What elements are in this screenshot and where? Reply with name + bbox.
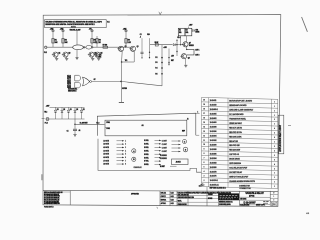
gate U2B — [75, 82, 81, 88]
svg-text:19-26410: 19-26410 — [210, 103, 217, 106]
svg-text:CAP FXD .01: CAP FXD .01 — [229, 153, 239, 156]
board inner box — [105, 120, 187, 136]
svg-text:12: 12 — [203, 135, 205, 137]
transistor Q7 — [182, 36, 194, 47]
svg-text:19-26396: 19-26396 — [210, 131, 217, 133]
transistor Q6 — [129, 46, 138, 52]
approval cells — [161, 191, 231, 206]
board outline — [97, 113, 196, 136]
resistor R7 — [103, 45, 108, 49]
svg-text:CR2: CR2 — [195, 29, 198, 31]
terminal E3 — [89, 28, 93, 47]
svg-text:REL: REL — [179, 32, 182, 34]
svg-text:-15V: -15V — [171, 55, 174, 57]
svg-text:C2 OUT: C2 OUT — [162, 144, 167, 146]
svg-text:REF: REF — [182, 131, 185, 133]
svg-text:1: 1 — [274, 186, 275, 188]
svg-text:RESISTORS ARE 1/4W 5%. CAPACIT: RESISTORS ARE 1/4W 5%. CAPACITORS IN MFD… — [45, 23, 94, 26]
svg-text:B+ 28V RET: B+ 28V RET — [80, 122, 88, 124]
svg-text:R1: R1 — [55, 40, 57, 42]
arrow A1 — [119, 101, 124, 103]
terminal E6 — [44, 46, 47, 54]
svg-text:19-26386: 19-26386 — [210, 153, 217, 155]
wire emitters — [121, 51, 134, 63]
connector ref circle B — [132, 157, 136, 161]
svg-text:19-26390: 19-26390 — [210, 145, 217, 147]
diode CR1 — [96, 54, 102, 59]
ground Q2e — [65, 58, 68, 60]
ladder rails — [50, 107, 85, 119]
connector ref circle D — [183, 147, 188, 152]
relay K2 — [185, 28, 192, 36]
svg-text:P502: P502 — [106, 128, 110, 130]
resistor R5 — [91, 39, 98, 44]
node +28V ladder — [46, 105, 50, 107]
table footer row — [239, 188, 251, 190]
svg-text:A1: A1 — [142, 124, 144, 127]
drawing title — [240, 192, 268, 207]
supply stub W5 — [168, 49, 174, 66]
svg-text:.01: .01 — [78, 130, 80, 132]
svg-text:Q7: Q7 — [189, 43, 191, 45]
wire bus A — [47, 46, 130, 48]
wire supply feed — [150, 44, 173, 46]
svg-text:6-12: 6-12 — [171, 203, 174, 205]
svg-text:5: 5 — [274, 159, 275, 161]
svg-text:1: 1 — [274, 106, 275, 108]
svg-text:COIL RELAY 28V DPDT: COIL RELAY 28V DPDT — [229, 167, 248, 170]
svg-text:SHEET 1 OF 1: SHEET 1 OF 1 — [256, 205, 265, 207]
svg-text:3: 3 — [274, 155, 275, 157]
svg-text:14: 14 — [203, 125, 205, 128]
board label 4 — [187, 118, 189, 120]
svg-text:2N2222: 2N2222 — [189, 45, 194, 47]
svg-text:P1-6: P1-6 — [96, 123, 99, 125]
svg-text:2: 2 — [204, 180, 205, 182]
svg-text:RES 47 2W: RES 47 2W — [229, 140, 238, 143]
net labels P3 — [160, 155, 167, 160]
border tick bottom-left — [41, 174, 43, 180]
node TB2 — [44, 112, 47, 114]
resistor R8 — [155, 42, 160, 46]
title strip top line — [43, 190, 278, 191]
svg-text:GT: GT — [94, 79, 96, 81]
connector P3 pins — [162, 140, 181, 153]
transistor Q5 — [117, 46, 126, 52]
title block grid — [160, 191, 278, 206]
handwritten mark — [199, 184, 204, 187]
svg-text:SOCKET RELAY: SOCKET RELAY — [229, 171, 243, 174]
node +28V — [188, 24, 193, 28]
svg-text:OUT 2: OUT 2 — [195, 54, 199, 56]
terminal E2 — [60, 28, 64, 47]
svg-text:19-26405: 19-26405 — [210, 112, 217, 115]
border tick left — [42, 117, 45, 119]
svg-text:1: 1 — [274, 110, 275, 112]
svg-text:CHASSIS ASSEM W/ BRACKETS: CHASSIS ASSEM W/ BRACKETS — [229, 180, 256, 183]
ground Q8e — [184, 58, 187, 67]
application strip — [278, 115, 284, 154]
svg-text:Q8: Q8 — [188, 57, 190, 59]
svg-text:8: 8 — [204, 153, 205, 155]
enclosure label — [134, 166, 142, 169]
svg-text:2: 2 — [274, 150, 275, 152]
svg-text:RES FXD 1K 5%: RES FXD 1K 5% — [229, 132, 242, 134]
svg-text:P.C. BACKBOARD: P.C. BACKBOARD — [229, 113, 244, 116]
svg-text:19-26392: 19-26392 — [210, 140, 217, 142]
board label 1 — [106, 122, 110, 124]
svg-text:CH R.T.: CH R.T. — [161, 196, 167, 198]
svg-text:CR1: CR1 — [99, 55, 102, 57]
svg-text:NOTE 1: NOTE 1 — [71, 26, 76, 28]
svg-text:R2: R2 — [65, 40, 67, 42]
svg-text:TP1: TP1 — [125, 60, 128, 62]
svg-text:B1 REL: B1 REL — [144, 140, 149, 142]
ground C1 — [73, 135, 76, 137]
transistor Q2 — [62, 52, 71, 58]
svg-text:6: 6 — [204, 162, 205, 164]
svg-text:D 3-22-65 ECN 3688 DK: D 3-22-65 ECN 3688 DK — [44, 198, 60, 200]
diode CR5 — [61, 107, 65, 119]
svg-text:B5 REL: B5 REL — [144, 154, 149, 156]
svg-text:B8 REL: B8 REL — [144, 164, 149, 166]
svg-text:DIODE 1N645: DIODE 1N645 — [229, 158, 240, 161]
svg-text:6: 6 — [274, 137, 275, 139]
svg-text:RES 220 1/4W: RES 220 1/4W — [229, 149, 240, 152]
svg-text:FORM 1907-R: FORM 1907-R — [44, 206, 54, 208]
svg-text:19-26411: 19-26411 — [210, 99, 217, 102]
svg-text:1: 1 — [274, 124, 275, 126]
svg-text:P501: P501 — [106, 122, 110, 124]
svg-text:6-12: 6-12 — [171, 196, 174, 198]
svg-text:P-5: P-5 — [155, 73, 157, 75]
svg-text:CR: CR — [83, 109, 85, 111]
svg-text:REL: REL — [186, 32, 189, 34]
svg-text:K1: K1 — [179, 30, 181, 32]
svg-text:SH 2: SH 2 — [223, 187, 226, 189]
svg-text:B2 REL: B2 REL — [144, 143, 149, 145]
svg-text:2: 2 — [274, 146, 275, 148]
connector ref circle C — [183, 140, 187, 144]
svg-text:Q2: Q2 — [68, 53, 70, 55]
diode CR4 — [54, 107, 58, 119]
svg-text:1: 1 — [274, 101, 275, 103]
svg-text:10: 10 — [203, 144, 205, 146]
parts list table — [202, 97, 278, 188]
svg-text:3: 3 — [204, 175, 205, 177]
svg-text:XSTR 2N2222A: XSTR 2N2222A — [229, 162, 242, 165]
diode CR8 — [80, 107, 84, 119]
svg-text:19-26378: 19-26378 — [210, 171, 217, 173]
diode CR6 — [67, 107, 71, 119]
connector P1 pins — [103, 139, 126, 165]
leader L1 — [207, 186, 226, 191]
transistor Q1 — [52, 52, 61, 58]
svg-text:P-3: P-3 — [155, 62, 157, 64]
svg-text:B6 REL: B6 REL — [144, 157, 149, 159]
svg-text:P-2: P-2 — [155, 57, 157, 59]
resistor R6 — [96, 39, 102, 44]
wire +28 stub — [176, 39, 178, 56]
svg-text:19-26376: 19-26376 — [210, 176, 217, 178]
svg-text:6-12: 6-12 — [171, 200, 174, 202]
svg-text:N-1: N-1 — [107, 22, 109, 24]
svg-text:P1-2: P1-2 — [44, 52, 47, 54]
svg-text:K2: K2 — [186, 30, 188, 32]
svg-text:19-26384: 19-26384 — [210, 157, 218, 160]
wire W3 — [121, 62, 123, 102]
svg-text:R9: R9 — [128, 40, 130, 42]
transistor Q4 — [94, 52, 103, 59]
ground G5 — [75, 50, 78, 60]
svg-text:D2 SENSE: D2 SENSE — [160, 158, 167, 160]
svg-text:+15V: +15V — [163, 47, 166, 49]
svg-text:CR: CR — [57, 109, 59, 111]
svg-text:TB-2: TB-2 — [44, 112, 47, 114]
svg-text:19-26408-1: 19-26408-1 — [210, 108, 218, 111]
svg-text:15: 15 — [203, 122, 205, 124]
svg-text:4: 4 — [274, 163, 275, 166]
svg-text:XFMR 24V 60HZ: XFMR 24V 60HZ — [229, 122, 242, 125]
svg-text:C1 OUT: C1 OUT — [162, 141, 167, 143]
terminal E1 — [50, 28, 54, 47]
svg-text:1: 1 — [274, 177, 275, 179]
svg-text:CR: CR — [76, 109, 78, 111]
svg-text:4: 4 — [274, 127, 275, 130]
svg-text:19-26372-11: 19-26372-11 — [210, 185, 219, 187]
svg-text:18: 18 — [203, 109, 205, 111]
diode CR7 — [74, 107, 78, 119]
svg-text:2: 2 — [274, 119, 275, 121]
connector J2 box — [172, 159, 189, 165]
svg-text:D 19-26387: D 19-26387 — [243, 202, 256, 205]
svg-text:R10: R10 — [147, 34, 150, 36]
gate U2 inputs — [67, 75, 71, 89]
svg-text:1: 1 — [274, 142, 275, 144]
page number — [306, 212, 310, 215]
gate U3 — [83, 77, 92, 86]
svg-text:16: 16 — [203, 117, 205, 119]
board label 2 — [105, 128, 110, 131]
svg-text:1: 1 — [274, 182, 275, 184]
board tick — [196, 111, 200, 136]
svg-text:DR J.M.: DR J.M. — [161, 193, 167, 195]
revision block — [44, 191, 70, 206]
resistor R9 — [125, 39, 132, 44]
svg-text:7: 7 — [204, 158, 205, 160]
svg-text:Q6: Q6 — [137, 46, 139, 48]
svg-text:G 9-19-65 ECN 3802 WS: G 9-19-65 ECN 3802 WS — [44, 203, 61, 205]
gate U1 — [73, 45, 85, 50]
svg-text:19: 19 — [203, 104, 205, 106]
svg-text:SENSE AMPL BOARD: SENSE AMPL BOARD — [229, 104, 247, 107]
resistor R2 — [62, 39, 69, 44]
connector ref circle A — [132, 149, 136, 153]
resistor R1 — [52, 39, 59, 44]
svg-text:UNLESS OTHERWISE SPECIFIED ALL: UNLESS OTHERWISE SPECIFIED ALL RESISTORS… — [45, 21, 102, 24]
terminal E4 — [96, 36, 98, 47]
svg-text:B3 REL: B3 REL — [144, 147, 149, 149]
svg-text:19-26402: 19-26402 — [210, 117, 217, 120]
svg-text:MOTOR STOP UNIT - BOARD: MOTOR STOP UNIT - BOARD — [229, 100, 253, 103]
svg-text:LINE LINE CLAMP ASSEM RLY: LINE LINE CLAMP ASSEM RLY — [229, 109, 254, 112]
svg-text:RES FXD 22K: RES FXD 22K — [229, 145, 240, 147]
output bracket — [186, 46, 199, 56]
relay K1 — [178, 28, 185, 36]
wire gate out — [92, 79, 162, 90]
net label low — [160, 166, 177, 168]
node TB1 label — [70, 28, 82, 45]
zone mark top — [159, 12, 162, 15]
svg-text:RET: RET — [171, 60, 174, 62]
svg-text:19-26394: 19-26394 — [210, 135, 218, 138]
svg-text:2: 2 — [274, 133, 275, 135]
svg-text:2: 2 — [274, 168, 275, 170]
svg-text:4: 4 — [204, 170, 205, 173]
svg-text:1: 1 — [274, 173, 275, 175]
ground Q4e — [97, 58, 100, 60]
svg-text:RES 4.7K 1/4 5%: RES 4.7K 1/4 5% — [229, 126, 242, 129]
svg-text:17: 17 — [203, 113, 205, 115]
svg-text:NOTE 5: NOTE 5 — [122, 88, 127, 90]
supply bus W4 — [155, 45, 166, 86]
svg-text:CR: CR — [63, 109, 65, 111]
svg-text:11: 11 — [203, 140, 205, 142]
svg-text:19-26388: 19-26388 — [210, 149, 217, 151]
notes block N1 — [45, 20, 110, 29]
terminal E7 — [45, 118, 49, 125]
svg-text:E1 RET: E1 RET — [160, 166, 165, 168]
svg-text:FINISH NONE: FINISH NONE — [178, 204, 187, 206]
ground Q3e — [91, 58, 94, 60]
connector P2 pins — [144, 140, 161, 167]
company logo — [219, 193, 240, 206]
svg-text:9: 9 — [204, 149, 205, 151]
svg-text:R7 100: R7 100 — [103, 45, 108, 47]
svg-text:5: 5 — [204, 167, 205, 169]
svg-text:OUT 1: OUT 1 — [195, 49, 199, 51]
svg-text:NONE: NONE — [208, 198, 212, 200]
svg-text:TRANSISTOR PANEL: TRANSISTOR PANEL — [229, 117, 247, 120]
svg-text:13: 13 — [203, 131, 205, 133]
svg-text:VARIABLE RELAY: VARIABLE RELAY — [245, 192, 264, 195]
svg-text:19-26382: 19-26382 — [210, 162, 217, 164]
size cells — [271, 193, 277, 206]
transistor Q8 — [180, 54, 190, 60]
approved note — [131, 193, 140, 196]
wire K1 drop — [177, 36, 181, 46]
ground Q1e — [55, 58, 58, 60]
terminal E5 — [123, 28, 127, 47]
capacitor C1 — [67, 129, 81, 134]
gate U1B — [86, 46, 93, 50]
enclosure outline — [98, 139, 201, 172]
fold mark — [302, 17, 308, 32]
board label 3 — [142, 124, 144, 127]
svg-text:EN W.S.: EN W.S. — [161, 200, 167, 202]
svg-text:D1 SENSE: D1 SENSE — [160, 155, 167, 157]
svg-text:19-26400: 19-26400 — [210, 121, 217, 124]
svg-text:J1: J1 — [187, 118, 189, 120]
svg-text:Q1: Q1 — [58, 53, 60, 55]
svg-text:20: 20 — [203, 100, 205, 102]
svg-text:CR: CR — [70, 109, 72, 111]
gate U2A — [75, 75, 81, 81]
svg-text:B7 REL: B7 REL — [144, 161, 149, 163]
board label 5 — [182, 131, 185, 133]
border tick right — [288, 124, 291, 126]
capacitor C2 — [140, 34, 144, 58]
svg-text:R6: R6 — [99, 40, 101, 42]
svg-text:19-26374-1: 19-26374-1 — [210, 179, 218, 182]
svg-text:C1: C1 — [67, 131, 69, 133]
svg-text:C2: C2 — [140, 34, 142, 36]
svg-text:APPLICATION NEXT ASSY: APPLICATION NEXT ASSY — [279, 124, 282, 151]
svg-text:SWITCH TOGGLE DPDT: SWITCH TOGGLE DPDT — [229, 176, 249, 178]
svg-text:(4702): (4702) — [249, 195, 255, 198]
footer form number — [44, 206, 54, 208]
stub rail W1 — [147, 34, 150, 58]
wire ladder out — [74, 119, 104, 129]
diode CR3 — [173, 44, 183, 46]
diode CR2 — [193, 29, 200, 33]
svg-text:19-26398: 19-26398 — [210, 127, 217, 129]
svg-text:C3 OUT: C3 OUT — [162, 148, 167, 150]
svg-text:19-26380: 19-26380 — [210, 167, 217, 169]
transistor Q3 — [88, 52, 97, 58]
svg-text:1: 1 — [274, 115, 275, 117]
svg-text:Q5: Q5 — [125, 46, 127, 48]
svg-text:CONNECTOR: CONNECTOR — [239, 188, 251, 190]
svg-text:6-12: 6-12 — [171, 193, 174, 195]
svg-text:RES 10K 1/4 5%: RES 10K 1/4 5% — [229, 135, 242, 138]
footer tick — [156, 207, 159, 209]
note text U2 — [68, 87, 77, 92]
